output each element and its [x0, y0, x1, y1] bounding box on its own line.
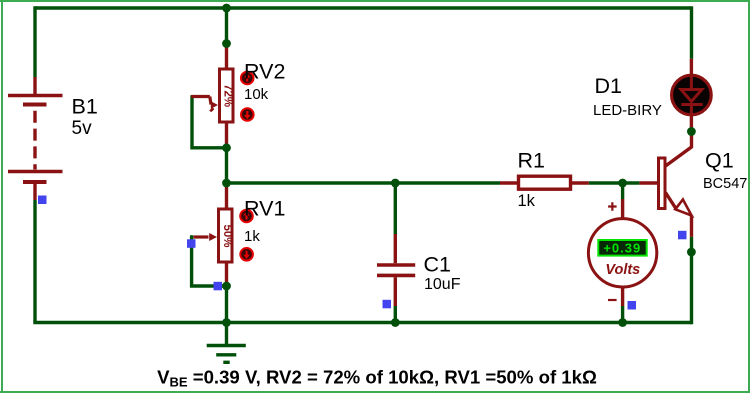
svg-text:RV1: RV1 — [244, 196, 285, 220]
svg-text:RV2: RV2 — [244, 60, 285, 84]
RV1 pin bottom — [225, 262, 228, 286]
battery B1 — [8, 77, 63, 200]
RV2 pin bottom — [225, 122, 228, 148]
svg-text:1k: 1k — [244, 228, 260, 245]
RV1 pin top — [225, 183, 228, 209]
wire voltmeter top drop — [621, 183, 624, 199]
svg-text:10k: 10k — [244, 86, 269, 103]
junction base node — [618, 179, 627, 188]
transistor Q1 — [639, 132, 691, 237]
junction ground node — [222, 318, 231, 327]
junction C1 bottom — [391, 318, 400, 327]
svg-text:1k: 1k — [518, 192, 536, 210]
wire RV2 wiper return — [192, 95, 227, 148]
svg-text:C1: C1 — [424, 253, 451, 277]
RV2 up button — [241, 72, 254, 85]
svg-text:R1: R1 — [518, 149, 545, 173]
capacitor C1 — [377, 234, 415, 306]
junction voltmeter bottom — [618, 318, 627, 327]
RV1 down button — [240, 248, 253, 261]
ground — [207, 323, 246, 363]
junction LED cathode — [687, 127, 696, 136]
marker battery blue square — [38, 196, 47, 205]
svg-text:Volts: Volts — [605, 262, 640, 278]
wire RV1 wiper return — [192, 235, 227, 286]
voltmeter — [588, 199, 656, 306]
wire LED drop — [690, 6, 693, 58]
junction top bus RV2 — [222, 4, 231, 13]
svg-text:Q1: Q1 — [705, 149, 734, 173]
RV1 up button — [240, 210, 253, 223]
voltmeter plus label — [608, 202, 617, 211]
svg-text:10uF: 10uF — [424, 276, 461, 293]
wire left rail upper — [33, 6, 36, 77]
wire C1 top — [394, 183, 397, 234]
LED D1 — [672, 59, 712, 132]
resistor R1 — [500, 176, 589, 189]
svg-text:72%: 72% — [221, 84, 233, 107]
junction middle bus RV1 — [222, 179, 231, 188]
svg-text:B1: B1 — [72, 95, 98, 119]
junction emitter node — [687, 248, 696, 257]
marker RV1 bottom blue square — [214, 282, 223, 291]
marker voltmeter blue square — [628, 301, 637, 310]
RV2 wiper arrow — [191, 97, 218, 112]
RV2 down button — [241, 108, 254, 121]
wire RV1 to bottom bus — [225, 286, 228, 323]
wire RV2 top drop — [225, 8, 228, 44]
RV1 wiper arrow — [194, 233, 218, 241]
svg-text:BC547: BC547 — [703, 176, 747, 192]
marker Q1 emitter blue square — [678, 231, 687, 240]
RV2 pin top — [225, 44, 228, 70]
wire left rail lower — [33, 200, 36, 323]
wire bottom bus — [33, 321, 691, 324]
marker RV1 wiper blue square — [187, 239, 196, 248]
wire C1 bottom — [394, 306, 397, 323]
wire RV2 to middle bus — [225, 148, 228, 183]
junction RV2 bottom node — [222, 143, 231, 152]
svg-text:D1: D1 — [595, 74, 622, 98]
wire emitter drop — [690, 237, 693, 324]
wire top bus — [35, 6, 692, 9]
potentiometer RV1 — [219, 209, 234, 262]
svg-text:5v: 5v — [72, 118, 93, 139]
marker C1 blue square — [383, 300, 392, 309]
svg-text:+0.39: +0.39 — [603, 240, 641, 255]
wire middle bus right — [589, 181, 640, 184]
voltmeter minus label — [608, 299, 617, 301]
wire middle bus left — [227, 181, 501, 184]
svg-text:VBE =0.39 V, RV2 = 72% of 10kΩ: VBE =0.39 V, RV2 = 72% of 10kΩ, RV1 =50%… — [157, 367, 597, 390]
junction RV2 pin node — [222, 39, 231, 48]
wire voltmeter bottom drop — [621, 306, 624, 323]
svg-text:LED-BIRY: LED-BIRY — [593, 102, 662, 119]
junction C1 top — [391, 179, 400, 188]
potentiometer RV2 — [220, 69, 234, 122]
junction RV1 bottom node — [222, 282, 231, 291]
svg-text:50%: 50% — [221, 224, 233, 247]
